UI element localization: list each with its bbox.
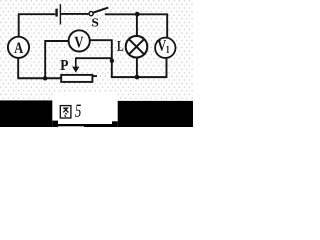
ammeter A: circle <box>8 37 29 58</box>
battery B: long thin plate (positive) <box>59 4 61 24</box>
left redaction bar <box>0 100 52 127</box>
wire: switch to top-right corner, down to voltmeter V1 <box>105 14 167 38</box>
wire: battery to switch <box>61 13 88 15</box>
paper background <box>0 0 193 127</box>
wire: bottom-right rail <box>111 76 167 78</box>
caption text 5 <box>75 105 81 117</box>
rheostat P: slider arrowhead <box>72 67 79 73</box>
right redaction bar <box>118 101 193 127</box>
rheostat P: resistor body box <box>61 75 92 82</box>
wire: rheostat slider tap wire <box>76 57 112 59</box>
label L (lamp) <box>117 41 123 51</box>
node: junction dot slider tap <box>110 59 114 63</box>
wire: rheostat right terminal stub (unconnected) <box>93 75 97 77</box>
wire: ammeter down to bottom rail <box>17 58 19 78</box>
label A (ammeter) <box>14 43 23 53</box>
switch S: open lever arm <box>94 8 109 13</box>
label V1 (voltmeter) <box>157 40 166 51</box>
voltmeter V1: circle <box>155 38 175 58</box>
battery B: short thick plate (negative) <box>55 9 57 17</box>
caption white window (pasted over redacted text) <box>52 92 117 127</box>
switch S: pivot circle <box>89 12 93 16</box>
wire: voltmeter V right branch to vertical riser down to bottom rail <box>90 40 112 77</box>
label V (voltmeter) <box>75 37 84 48</box>
node: junction dot on top wire above lamp <box>135 12 140 17</box>
voltmeter V: circle <box>69 30 90 51</box>
label P (rheostat slider) <box>60 60 68 70</box>
wire: junction down to lamp <box>136 14 138 36</box>
node: junction dot on bottom-left rail <box>43 76 48 81</box>
ink blotch right of left bar <box>52 121 58 127</box>
bottom edge ink line center-right <box>84 124 112 127</box>
bottom edge ink block left of right bar <box>112 121 118 127</box>
bottom edge ink line center-left <box>58 124 84 126</box>
node: junction dot on bottom rail below lamp <box>135 75 140 80</box>
rheostat P: slider arrow shaft <box>75 57 77 68</box>
label S (switch) <box>92 18 98 26</box>
wire: top-left corner from ammeter up to battery <box>18 14 55 36</box>
lamp L: cross X <box>129 39 144 54</box>
wire: lamp down to bottom rail <box>136 57 138 77</box>
wire: voltmeter V left branch down to rail <box>44 41 68 78</box>
wire: voltmeter V1 down to bottom rail corner <box>166 58 168 78</box>
lamp L: circle <box>126 36 148 58</box>
caption glyph 图 (hand-drawn box character) <box>60 106 71 118</box>
wire: bottom-left rail to rheostat <box>17 77 61 79</box>
